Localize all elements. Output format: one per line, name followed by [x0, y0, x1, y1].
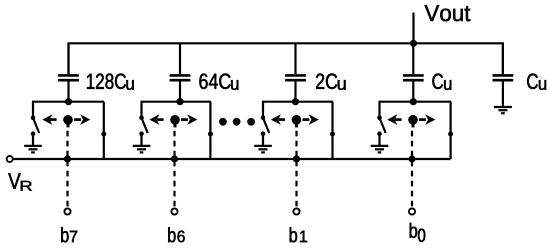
value label 2Cu [316, 74, 337, 89]
wire: wiper stub [67, 120, 70, 128]
switch lower contact [31, 131, 36, 136]
capacitor 128Cu [58, 75, 79, 80]
value label Cu [432, 74, 443, 89]
label b0 [410, 223, 417, 238]
ground (switch) [254, 146, 272, 153]
wire: switch box left edge [262, 102, 264, 118]
wire: switch to ground [140, 134, 142, 146]
node: control line crossing VR rail [171, 155, 178, 162]
node: VR input terminal [7, 156, 13, 162]
switch lever (open) [380, 118, 386, 133]
ground (termination cap) [494, 107, 512, 113]
wire: cap C3 top lead [179, 43, 181, 74]
switch lever (open) [142, 118, 148, 133]
switch lever (open) [33, 118, 39, 133]
wire: switch box right edge down to VR rail [331, 102, 333, 159]
value label 64Cu [199, 74, 230, 89]
wire: cap C2 top lead [294, 43, 296, 74]
switch wiper left-throw arrow [387, 114, 401, 125]
capacitor Cu (termination) [493, 75, 514, 80]
wire: termination cap top lead [502, 43, 504, 74]
wire: switch box left edge [378, 102, 380, 118]
value label 128Cu [87, 74, 126, 89]
wire: switch to ground [378, 134, 380, 146]
wire: dashed control line 7 [66, 131, 68, 208]
label b6 [168, 227, 175, 242]
node: contact dot on right edge [208, 132, 213, 137]
wire: dashed control line 0 [411, 131, 413, 208]
wire: cap C4 top lead [67, 43, 69, 74]
node: contact dot on right edge [101, 132, 106, 137]
label b7 [61, 227, 68, 242]
switch wiper pivot dot [170, 115, 180, 125]
node: control terminal circle [409, 208, 415, 214]
wire: switch box right edge down to VR rail [450, 102, 452, 159]
node: control terminal circle [64, 208, 70, 214]
wire: switch box top edge [379, 101, 452, 103]
wire: switch box right edge down to VR rail [209, 102, 211, 159]
switch upper contact [261, 116, 266, 121]
node: contact dot on right edge [330, 132, 335, 137]
wire: dashed control line 1 [295, 131, 297, 208]
switch wiper right-throw arrow [74, 114, 90, 125]
wire: cap bottom lead to switch box [179, 82, 181, 102]
wire: cap bottom lead to switch box [67, 82, 69, 102]
node: control line crossing VR rail [64, 155, 71, 162]
node: control terminal circle [293, 208, 299, 214]
wire: top plate output rail [69, 43, 503, 74]
wire: cap C1 top lead [412, 43, 414, 74]
switch lower contact [139, 131, 144, 136]
label VR [8, 173, 21, 188]
wire: switch box left edge [140, 102, 142, 118]
node: box top junction dot [176, 98, 183, 105]
node: box top junction dot [65, 98, 72, 105]
wire: switch box top edge [141, 101, 211, 103]
label b1 [290, 227, 297, 242]
wire: cap bottom lead to switch box [412, 82, 414, 102]
wire: switch box right edge down to VR rail [103, 102, 105, 159]
node: contact dot on right edge [448, 132, 453, 137]
wire: dashed control line 6 [173, 131, 175, 208]
wire: wiper stub [295, 120, 298, 128]
node: control line crossing VR rail [408, 155, 415, 162]
switch wiper right-throw arrow [303, 114, 319, 125]
switch wiper pivot dot [63, 115, 73, 125]
wire: wiper stub [174, 120, 177, 128]
switch wiper pivot dot [292, 115, 302, 125]
wire: switch box left edge [32, 102, 34, 118]
wire: wiper stub [412, 120, 415, 128]
node: Vout junction on top rail [410, 40, 417, 47]
wire: switch to ground [32, 134, 34, 146]
wire: termination cap to ground [502, 82, 504, 108]
switch lower contact [261, 131, 266, 136]
switch upper contact [31, 116, 36, 121]
switch wiper right-throw arrow [181, 114, 197, 125]
value label Cu [527, 74, 538, 89]
switch wiper right-throw arrow [419, 114, 435, 125]
capacitor 64Cu [170, 75, 191, 80]
switch wiper left-throw arrow [271, 114, 285, 125]
ground (switch) [24, 146, 42, 153]
switch wiper left-throw arrow [42, 114, 56, 125]
capacitor Cu [403, 75, 424, 80]
wire: switch box top edge [32, 101, 104, 103]
node: box top junction dot [292, 98, 299, 105]
node: box top junction dot [410, 98, 417, 105]
label Vout [425, 5, 471, 21]
switch upper contact [139, 116, 144, 121]
wire: switch to ground [262, 134, 264, 146]
capacitor 2Cu [285, 75, 306, 80]
switch lower contact [377, 131, 382, 136]
node: control line crossing VR rail [293, 155, 300, 162]
node: control terminal circle [171, 208, 177, 214]
wire: switch box top edge [262, 101, 333, 103]
switch upper contact [377, 116, 382, 121]
wire: VR reference rail [13, 158, 451, 160]
node: ellipsis dots (omitted bit cells) [219, 118, 255, 126]
switch lever (open) [263, 118, 269, 133]
ground (switch) [371, 146, 389, 153]
switch wiper left-throw arrow [149, 114, 163, 125]
wire: cap bottom lead to switch box [294, 82, 296, 102]
ground (switch) [133, 146, 151, 153]
switch wiper pivot dot [408, 115, 418, 125]
wire: Vout stem [412, 13, 414, 44]
